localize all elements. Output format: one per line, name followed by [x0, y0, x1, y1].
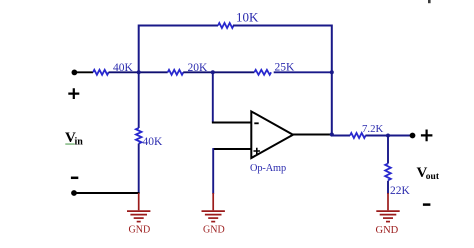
svg-text:GND: GND	[376, 225, 399, 236]
svg-text:40K: 40K	[143, 136, 164, 148]
wire: output row 7.2K to output terminal	[365, 135, 412, 137]
svg-text:Op-Amp: Op-Amp	[250, 163, 286, 174]
wire: top feedback left segment with corner down to input row	[139, 26, 218, 72]
resistor 10K (feedback)	[218, 23, 234, 28]
svg-text:in: in	[75, 137, 84, 148]
wire: bottom-left horizontal from - terminal to ground vertical	[74, 192, 140, 194]
wire: op-amp output stub to junction D	[293, 134, 332, 136]
node junction E (7.2K/22K)	[386, 134, 390, 138]
svg-text:out: out	[426, 172, 440, 182]
wire: top feedback right segment down right vertical to op-amp output node	[233, 26, 332, 135]
ground GND3 (right)	[376, 193, 399, 222]
node junction B (20K/25K/inverting branch)	[211, 70, 215, 74]
wire: vertical from junction A down to shunt 40K	[138, 72, 140, 128]
wire: output branch vertical 22K to ground stub	[387, 181, 389, 194]
polarity mark - (input left)	[71, 177, 78, 180]
resistor 7.2K	[350, 133, 366, 138]
resistor 20K	[168, 70, 184, 75]
ground GND2 (middle)	[202, 193, 225, 222]
node junction C (25K/feedback vertical)	[330, 70, 334, 74]
wire: main row segment 25K to right vertical	[274, 71, 332, 73]
ground GND1 (left)	[127, 193, 150, 222]
wire: output branch vertical to 22K	[387, 136, 389, 164]
svg-text:GND: GND	[203, 225, 225, 236]
node: output terminal + (dot)	[410, 133, 416, 139]
wire: output row to 7.2K	[332, 135, 350, 137]
node junction A (40K/20K/10K/40K-shunt)	[137, 70, 141, 74]
polarity mark + (input left)	[68, 88, 79, 99]
wire: inverting branch vertical from junction B	[212, 72, 214, 122]
wire: main row segment 40K to 20K	[109, 71, 168, 73]
wire: main row segment 20K to 25K	[183, 71, 254, 73]
resistor 25K	[254, 70, 271, 75]
wire: non-inverting input horizontal from ground branch	[213, 148, 251, 150]
stray mark at top edge	[428, 0, 431, 3]
op-amp non-inverting pin mark +	[254, 148, 261, 155]
node: input terminal - (dot)	[71, 190, 77, 196]
svg-text:10K: 10K	[236, 10, 259, 25]
svg-text:7.2K: 7.2K	[362, 123, 383, 135]
wire: input stub from + terminal to 40K	[77, 71, 94, 73]
svg-text:GND: GND	[129, 225, 151, 236]
wire: vertical from shunt 40K down to ground stub	[138, 144, 140, 195]
op-amp inverting pin mark -	[254, 122, 258, 124]
wire: inverting input horizontal into op-amp	[212, 122, 251, 124]
resistor 40K (series input)	[93, 70, 109, 75]
polarity mark + (output right)	[421, 130, 433, 142]
wire: non-inverting branch vertical down to ground stub	[212, 148, 214, 194]
resistor 22K (load)	[385, 164, 391, 181]
node: input terminal + (dot)	[72, 70, 78, 76]
polarity mark - (output right)	[423, 203, 431, 206]
resistor 40K (shunt to ground)	[136, 128, 142, 144]
node junction D (output/feedback)	[330, 132, 334, 136]
op-amp U1 triangle	[251, 111, 293, 158]
label Vin green underline	[65, 143, 74, 144]
svg-text:22K: 22K	[390, 185, 411, 197]
